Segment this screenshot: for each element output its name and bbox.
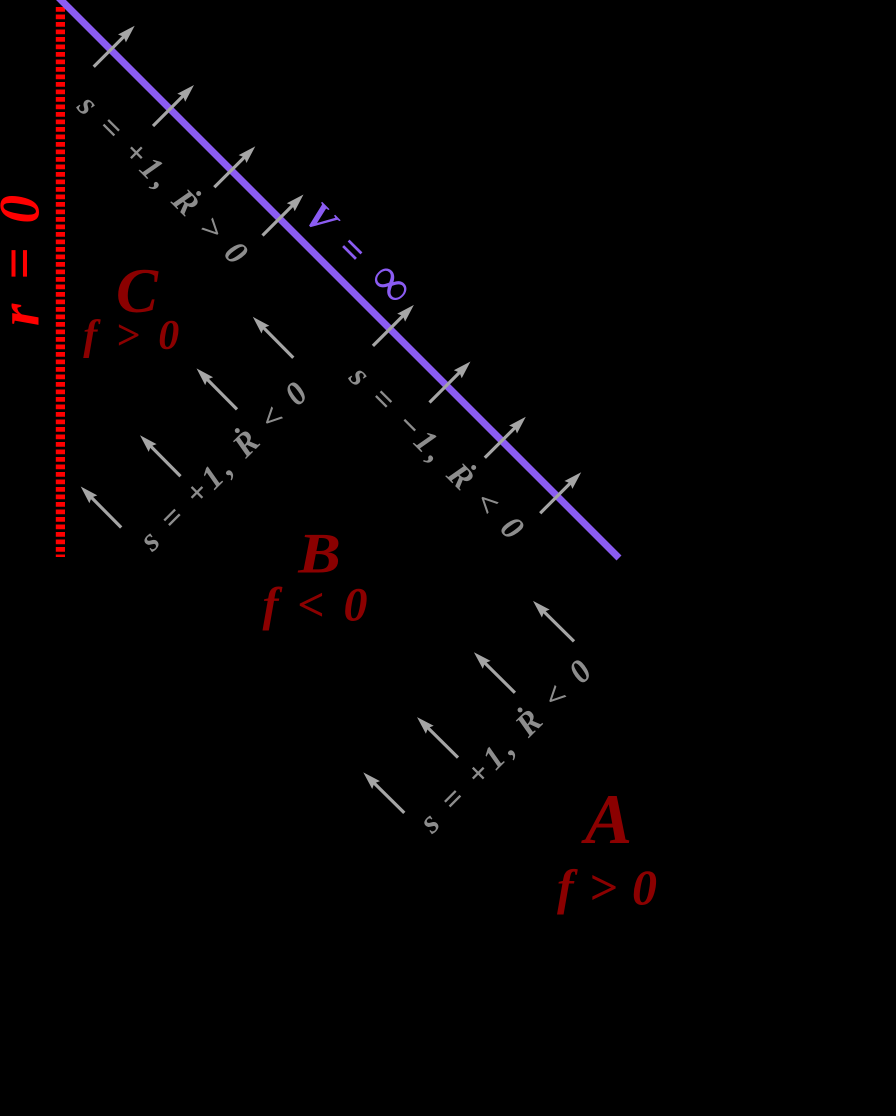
flow arrow F3-1 A/B boundary: [417, 717, 458, 758]
flow arrow F1-3 crossing V=inf line: [263, 195, 304, 236]
flow arrow F1-5 crossing V=inf line: [430, 362, 471, 403]
flow arrow F2-3 B/C boundary: [253, 317, 293, 358]
flow arrow F1-0 crossing V=inf line: [94, 26, 135, 67]
flow arrow F3-2 A/B boundary: [474, 652, 515, 693]
flow arrow F1-1 crossing V=inf line: [153, 85, 194, 126]
flow arrow F1-4 crossing V=inf line: [373, 305, 414, 346]
svg-text:A: A: [581, 781, 632, 859]
flow arrow F2-0 B/C boundary: [81, 487, 122, 528]
flow arrow F2-2 B/C boundary: [197, 368, 238, 409]
svg-text:f > 0: f > 0: [557, 859, 657, 915]
flow arrow F1-2 crossing V=inf line: [214, 146, 255, 187]
svg-text:f < 0: f < 0: [263, 578, 368, 631]
red dotted line r=0: [56, 7, 65, 557]
flow arrow F3-3 A/B boundary: [533, 601, 574, 642]
svg-text:B: B: [297, 522, 341, 585]
flow arrow F3-0 A/B boundary: [363, 772, 404, 813]
flow arrow F1-7 crossing V=inf line: [540, 472, 581, 513]
flow arrow F1-6 crossing V=inf line: [485, 417, 526, 458]
flow arrow F2-1 B/C boundary: [140, 435, 181, 476]
svg-text:r = 0: r = 0: [0, 195, 51, 326]
purple line V=infinity: [58, 0, 619, 558]
